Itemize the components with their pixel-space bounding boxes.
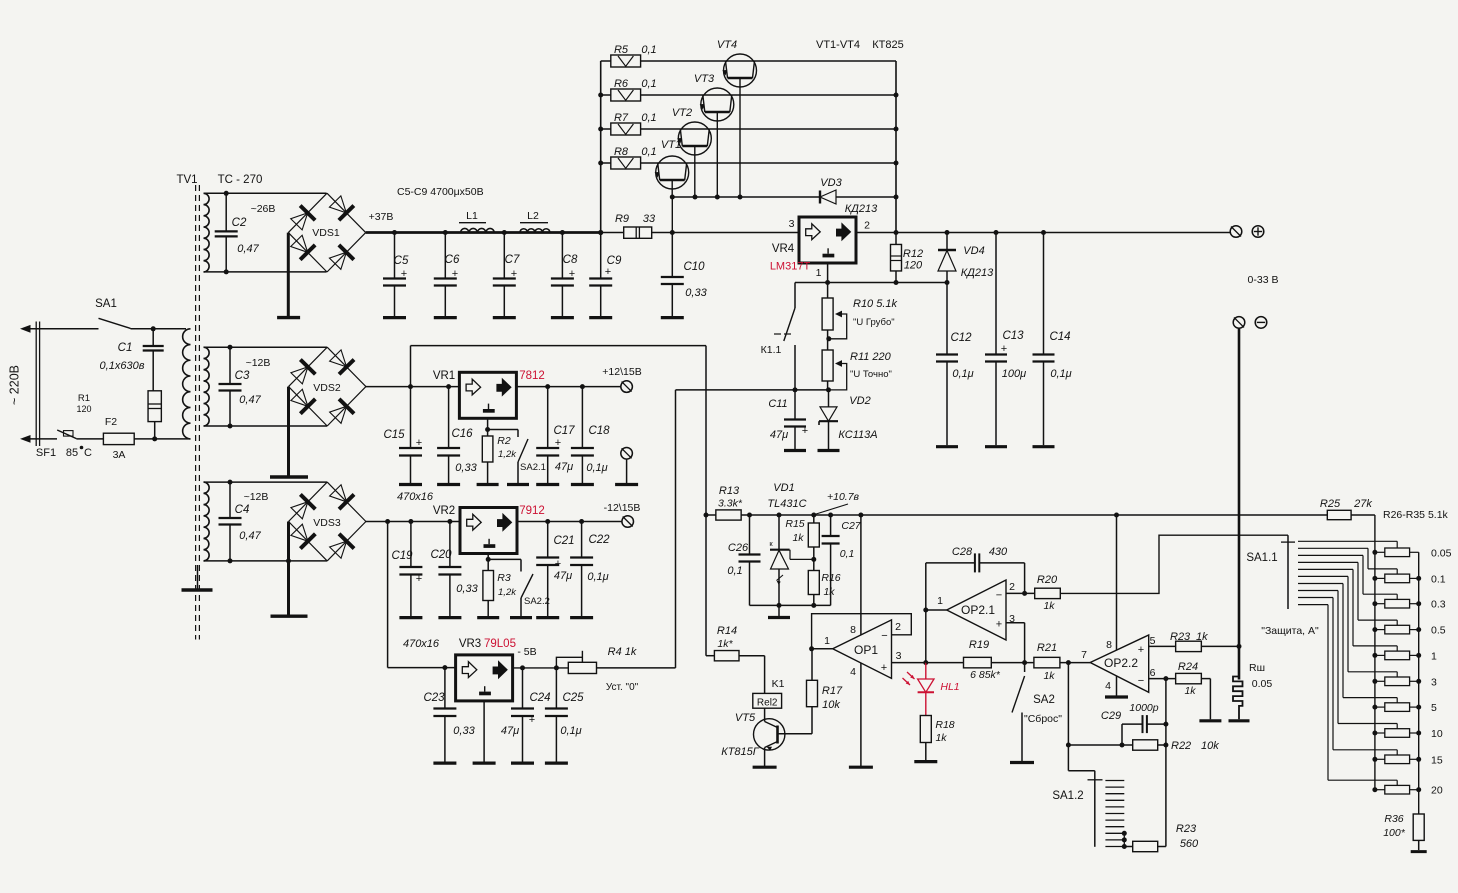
svg-text:~12В: ~12В — [246, 357, 271, 369]
svg-text:Уст. "0": Уст. "0" — [606, 682, 639, 693]
label C19 — [391, 550, 413, 562]
label TL431C — [767, 498, 806, 510]
svg-text:4: 4 — [1105, 680, 1111, 692]
wire VR3 gnd pin — [483, 701, 485, 762]
svg-text:0,1: 0,1 — [727, 565, 742, 577]
node C18 — [580, 384, 585, 389]
label R21 value 1k — [1043, 670, 1055, 682]
svg-text:C21: C21 — [553, 535, 574, 547]
svg-text:R13: R13 — [719, 485, 740, 497]
node C1 top junction — [151, 326, 156, 331]
diode VD3 — [820, 190, 836, 204]
label R18 value 1k — [935, 732, 947, 744]
node C3 bottom — [228, 424, 233, 429]
label ~220V — [8, 365, 22, 405]
label R12 value 120 — [904, 260, 923, 272]
ground C14 — [1033, 445, 1055, 448]
op-amp OP1 — [833, 620, 892, 679]
label Rsh — [1249, 662, 1265, 674]
node C17 — [545, 384, 550, 389]
label C24 — [529, 692, 550, 704]
svg-text:−: − — [1138, 675, 1144, 687]
svg-text:КД213: КД213 — [845, 203, 878, 215]
svg-text:0,47: 0,47 — [239, 394, 261, 406]
svg-text:R8: R8 — [614, 146, 629, 158]
wire tap R30 — [1298, 569, 1397, 651]
mains terminal arrow bottom — [20, 435, 31, 443]
svg-text:+: + — [605, 266, 611, 278]
svg-text:+12\15В: +12\15В — [602, 366, 641, 378]
node C25 — [554, 665, 559, 670]
svg-text:C15: C15 — [383, 429, 405, 441]
label K1 — [772, 678, 785, 690]
label Zashchita A — [1261, 625, 1319, 637]
capacitor C18 — [571, 387, 594, 483]
label TC - 270 — [218, 174, 263, 186]
potentiometer R11 — [822, 330, 847, 390]
pin5 wire OP2.2 — [1149, 645, 1176, 647]
node VR1 input branch — [408, 384, 413, 389]
svg-text:8: 8 — [850, 624, 856, 636]
label R25 value — [1320, 498, 1372, 510]
svg-text:C29: C29 — [1101, 710, 1121, 722]
svg-text:3: 3 — [1009, 613, 1015, 625]
capacitor C16 — [437, 387, 460, 483]
pin2 label OP2.1 — [1009, 581, 1015, 593]
wire VR4 output rail — [857, 232, 1230, 234]
plus C17 — [555, 437, 561, 449]
wire VR4 pin1 down — [827, 263, 829, 283]
pin4 wire OP2.2 — [1116, 676, 1118, 696]
ground C18 — [571, 483, 594, 486]
svg-text:C3: C3 — [235, 370, 250, 382]
svg-text:VD1: VD1 — [773, 482, 794, 494]
svg-text:R6: R6 — [614, 78, 629, 90]
minus sign circle — [1255, 317, 1267, 329]
label ~26V — [251, 203, 276, 215]
resistor R6 — [611, 89, 641, 101]
svg-text:"U Грубо": "U Грубо" — [853, 317, 895, 328]
capacitor C28 loop — [926, 553, 1025, 593]
label TV1 — [176, 174, 197, 186]
label C10 value 0,33 — [685, 287, 707, 299]
resistor R8 — [611, 157, 641, 169]
svg-text:4: 4 — [850, 666, 856, 678]
wire winding IV bottom — [204, 560, 328, 562]
ground C13 — [985, 445, 1007, 448]
svg-text:~ 220В: ~ 220В — [8, 365, 22, 405]
label 470x16 under VDS3 feed — [403, 638, 440, 650]
svg-text:C18: C18 — [588, 425, 610, 437]
node ADJ R12 — [894, 280, 899, 285]
label R20 — [1037, 574, 1058, 586]
label scale 3 — [1431, 676, 1437, 688]
label scale 20 — [1431, 785, 1443, 797]
resistor R30 — [1375, 651, 1419, 660]
label R17 value 10k — [822, 699, 840, 711]
label R23 value 560 — [1180, 838, 1199, 850]
wire tap R33 — [1298, 591, 1397, 729]
label VD2 type KS113A — [838, 429, 877, 441]
wire winding II top — [204, 192, 327, 194]
svg-text:1k*: 1k* — [717, 638, 733, 650]
label VD4 — [963, 245, 984, 257]
label VR3 — [459, 638, 481, 650]
svg-text:0,33: 0,33 — [685, 287, 707, 299]
svg-text:R7: R7 — [614, 112, 629, 124]
ground C17 — [536, 483, 559, 486]
label C20 — [430, 549, 452, 561]
label Rel2 — [757, 697, 778, 708]
bridge rectifier VDS2 — [289, 347, 366, 426]
label R12 — [903, 248, 923, 260]
svg-text:20: 20 — [1431, 785, 1443, 797]
capacitor C10 — [661, 233, 684, 317]
node C24 — [520, 665, 525, 670]
wire VR1 output — [516, 386, 621, 388]
wire tap R32 — [1298, 584, 1397, 703]
minus mark OP2.1 — [996, 590, 1002, 602]
label VT1 — [661, 139, 681, 151]
svg-text:~26В: ~26В — [251, 203, 276, 215]
svg-text:SA2.2: SA2.2 — [524, 596, 550, 607]
svg-text:0,1: 0,1 — [641, 78, 656, 90]
switch SA1.2 tied contacts — [1122, 831, 1133, 849]
ground C5 — [383, 316, 406, 319]
output terminal minus — [1233, 317, 1245, 329]
nodes ladder right rail — [1416, 576, 1421, 792]
pin8 wire OP2.2 — [1116, 515, 1118, 650]
wire VR3 output — [513, 667, 569, 669]
svg-text:SA1.2: SA1.2 — [1052, 790, 1083, 802]
capacitor C17 — [536, 387, 559, 483]
label C4 — [235, 504, 250, 516]
label HL1 — [940, 681, 959, 693]
svg-text:1k: 1k — [823, 586, 835, 598]
switch SA1.2 contacts — [1105, 781, 1124, 847]
label C3 value 0,47 — [239, 394, 261, 406]
svg-text:C17: C17 — [553, 425, 575, 437]
label U Grubo — [853, 317, 895, 328]
label R2 value 1,2k — [498, 449, 517, 460]
label C2 value 0,47 — [237, 243, 259, 255]
svg-text:+: + — [401, 268, 407, 280]
svg-text:6: 6 — [1150, 667, 1156, 679]
wire +10.7V line — [706, 514, 1327, 516]
svg-text:L1: L1 — [466, 210, 478, 222]
node C2 top — [224, 191, 229, 196]
svg-text:Rel2: Rel2 — [757, 697, 778, 708]
pin3 wire OP1 — [892, 662, 926, 664]
plus mark OP2.2 — [1138, 644, 1144, 656]
label R15 — [785, 518, 804, 530]
switch SA2 — [1012, 663, 1025, 761]
switch SA2.2 — [488, 559, 533, 616]
resistor R18 — [920, 716, 931, 761]
capacitor C5 — [383, 233, 406, 317]
svg-text:100μ: 100μ — [1002, 368, 1026, 380]
ground R2 — [477, 483, 499, 486]
svg-text:85: 85 — [66, 447, 78, 459]
capacitor C25 — [545, 668, 568, 762]
svg-text:1k: 1k — [1043, 600, 1055, 612]
svg-text:+: + — [555, 437, 561, 449]
svg-text:+: + — [452, 268, 458, 280]
node pin1 OP2.1 — [923, 608, 928, 613]
capacitor C22 — [570, 522, 593, 617]
label R1 value 120 — [76, 404, 91, 414]
wire row VT3 — [601, 94, 896, 96]
fuse F2 — [103, 433, 190, 444]
node R15 top — [811, 513, 816, 518]
svg-text:SA2: SA2 — [1033, 694, 1055, 706]
label R26-R35 5.1k — [1383, 509, 1449, 521]
svg-text:-12\15В: -12\15В — [604, 502, 641, 514]
label VT1-VT4 KT825 — [816, 39, 904, 51]
wire winding III bottom — [204, 425, 328, 427]
capacitor C12 — [936, 283, 958, 446]
plus C19 — [416, 573, 422, 585]
svg-text:VR2: VR2 — [433, 505, 455, 517]
label Sbros — [1024, 713, 1062, 725]
bus left (emitter resistors feed) — [600, 61, 602, 233]
node OP2 pin7 — [1066, 660, 1071, 665]
node HL1 top — [923, 660, 928, 665]
svg-text:C20: C20 — [430, 549, 452, 561]
label R8 and value — [614, 146, 657, 158]
svg-text:1k: 1k — [1184, 685, 1196, 697]
ground VDS2 — [270, 475, 308, 478]
svg-text:F2: F2 — [105, 416, 117, 428]
svg-text:C10: C10 — [683, 261, 705, 273]
label C26 — [728, 542, 749, 554]
svg-text:560: 560 — [1180, 838, 1199, 850]
svg-text:0.3: 0.3 — [1431, 599, 1446, 611]
capacitor C20 — [438, 522, 461, 617]
output terminal plus — [1230, 226, 1242, 238]
node C26 top — [747, 513, 752, 518]
svg-text:+: + — [881, 662, 887, 674]
ground VDS1 — [277, 316, 300, 319]
transformer TV1 secondary winding IV (~12V) — [204, 482, 210, 561]
bridge rectifier VDS1 — [288, 193, 365, 272]
label C26 value 0,1 — [727, 565, 742, 577]
wire R20 to SA1.1 — [1060, 535, 1288, 593]
ground TL431 network — [768, 605, 790, 617]
label ~12V winding IV — [244, 491, 269, 503]
pin2 wire OP2.1 — [1006, 592, 1035, 594]
label VT4 — [717, 39, 737, 51]
svg-text:C27: C27 — [841, 520, 861, 532]
wire VDS3 negative to ground — [287, 522, 290, 615]
label L2 — [527, 210, 539, 222]
node C23 — [442, 665, 447, 670]
wire tap R31 — [1298, 576, 1397, 677]
resistor R1 — [148, 391, 161, 422]
mains terminal arrow top — [20, 325, 31, 333]
svg-text:79L05: 79L05 — [484, 638, 516, 650]
resistor R31 — [1375, 677, 1419, 686]
ground C9 — [589, 316, 612, 319]
node K1.1 / C11 — [793, 387, 798, 392]
label scale 0.5 — [1431, 625, 1446, 637]
ground SA2.1 — [507, 483, 529, 486]
svg-text:SA1.1: SA1.1 — [1246, 552, 1277, 564]
label C7 — [505, 254, 520, 266]
svg-text:7912: 7912 — [519, 505, 545, 517]
svg-text:0,1μ: 0,1μ — [952, 368, 973, 380]
wire rail to R9 — [601, 232, 624, 234]
svg-text:0.05: 0.05 — [1252, 678, 1273, 690]
label C20 value 0,33 — [456, 583, 478, 595]
svg-text:+: + — [416, 573, 422, 585]
label C1 — [118, 342, 133, 354]
resistor R21 — [1034, 657, 1090, 668]
output terminal +12/15V — [621, 381, 633, 393]
svg-text:R3: R3 — [497, 572, 511, 584]
bridge rectifier VDS3 — [289, 482, 366, 561]
node C7 — [502, 230, 507, 235]
svg-text:C14: C14 — [1049, 331, 1070, 343]
pin4 label OP1 — [850, 666, 856, 678]
capacitor C14 — [1033, 233, 1055, 446]
pin1 wire OP1 output — [812, 648, 833, 650]
resistor R14 — [706, 651, 765, 661]
svg-text:C2: C2 — [232, 217, 247, 229]
svg-text:+: + — [1001, 343, 1007, 355]
label C14 value — [1050, 368, 1071, 380]
wire minus bus — [1238, 328, 1241, 679]
svg-text:~12В: ~12В — [244, 491, 269, 503]
feedback loop OP1 — [812, 614, 912, 649]
transformer TV1 core — [196, 185, 200, 640]
label VT2 — [672, 107, 692, 119]
svg-text:K1: K1 — [772, 678, 785, 690]
plus C8 — [569, 268, 575, 280]
label C1 value 0,1x630v — [100, 360, 145, 372]
ground SA2 — [1010, 761, 1034, 764]
mains plug bars — [36, 322, 39, 447]
wire R11 bottom — [827, 381, 829, 390]
capacitor C6 — [434, 233, 457, 317]
wire VDS2 negative to ground — [287, 387, 290, 476]
label R22 10k — [1171, 740, 1219, 752]
label C4 value 0,47 — [239, 530, 261, 542]
label C5 — [394, 255, 409, 267]
switch SA1 — [99, 318, 187, 329]
relay contact K1.1 — [774, 283, 795, 390]
node R11 / VD2 — [826, 387, 831, 392]
wire relay to VT5 collector — [764, 708, 766, 721]
svg-text:VT1-VT4: VT1-VT4 — [816, 39, 860, 51]
shunt Rsh — [1233, 677, 1243, 720]
svg-text:VT1: VT1 — [661, 139, 681, 151]
svg-text:0.5: 0.5 — [1431, 625, 1446, 637]
svg-text:R24: R24 — [1178, 661, 1198, 673]
svg-text:10: 10 — [1431, 728, 1443, 740]
svg-text:С5-С9 4700μх50В: С5-С9 4700μх50В — [397, 186, 484, 198]
svg-text:C: C — [84, 447, 92, 459]
label R11 value — [850, 351, 892, 363]
label 7812 — [519, 370, 545, 382]
svg-text:1: 1 — [937, 595, 943, 607]
node pin8 OP1 — [858, 513, 863, 518]
label SA2.2 — [524, 596, 550, 607]
svg-text:R11 220: R11 220 — [850, 351, 892, 363]
wire ladder right rail — [1418, 552, 1420, 813]
svg-text:OP2.2: OP2.2 — [1104, 656, 1138, 670]
plus C9 — [605, 266, 611, 278]
plus C5 — [401, 268, 407, 280]
label C15 — [383, 429, 405, 441]
svg-text:R9: R9 — [615, 213, 629, 225]
label C6 — [445, 254, 460, 266]
wire winding IV top — [204, 481, 328, 483]
svg-text:VR3: VR3 — [459, 638, 481, 650]
label C10 — [683, 261, 705, 273]
svg-text:3: 3 — [789, 218, 795, 230]
node VDS3 bottom crossing — [286, 558, 291, 563]
svg-text:3A: 3A — [113, 449, 126, 461]
svg-text:120: 120 — [76, 404, 91, 414]
wire R14 to relay — [764, 656, 766, 694]
svg-text:R18: R18 — [935, 719, 954, 731]
wire winding III top — [204, 346, 328, 348]
svg-text:TL431C: TL431C — [767, 498, 806, 510]
label R16 value 1k — [823, 586, 835, 598]
wire VDS1 negative to ground — [287, 233, 290, 316]
label SA1.1 — [1246, 552, 1277, 564]
capacitor C7 — [493, 233, 516, 317]
label C18 value — [586, 462, 607, 474]
thermal switch SF1 — [57, 430, 103, 439]
label C13 value — [1002, 368, 1026, 380]
label C17 value 47u — [555, 461, 573, 473]
label R17 — [822, 685, 843, 697]
label scale 15 — [1431, 754, 1443, 766]
node C29 right — [1163, 722, 1168, 727]
switch SA2.1 — [488, 430, 528, 484]
label R7 and value — [614, 112, 657, 124]
ground C16 — [437, 483, 460, 486]
ground VT5 — [753, 766, 777, 769]
svg-text:C25: C25 — [562, 692, 584, 704]
svg-text:TV1: TV1 — [176, 174, 197, 186]
plus C6 — [452, 268, 458, 280]
label 79L05 — [484, 638, 516, 650]
label VDS1 — [312, 227, 340, 239]
capacitor C24 — [511, 668, 534, 762]
svg-text:0,47: 0,47 — [237, 243, 259, 255]
label R18 — [935, 719, 954, 731]
wire row VT2 — [601, 128, 896, 130]
label scale 10 — [1431, 728, 1443, 740]
label R23 1k — [1170, 631, 1208, 643]
plus C13 — [1001, 343, 1007, 355]
svg-text:VT3: VT3 — [694, 73, 715, 85]
regulator VR3 — [456, 655, 513, 701]
svg-text:+10.7в: +10.7в — [827, 491, 860, 503]
svg-text:0,33: 0,33 — [456, 583, 478, 595]
output terminal -12/15V — [622, 516, 634, 528]
node R22 line left — [1066, 743, 1071, 748]
svg-text:SA2.1: SA2.1 — [520, 462, 546, 473]
svg-text:10k: 10k — [1201, 740, 1219, 752]
pin7 label OP2.2 — [1081, 649, 1087, 661]
svg-text:1: 1 — [816, 267, 822, 279]
label SF1 — [36, 447, 56, 459]
label scale 0.05 — [1431, 547, 1452, 559]
